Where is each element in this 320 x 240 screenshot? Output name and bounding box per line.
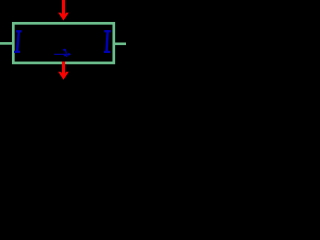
wire loop (green rectangle) [13,23,114,63]
wire right stub [114,42,126,45]
velocity vector v (center, navy right arrow with glyphs) [54,50,69,56]
bottom current arrow (red, downward) [58,62,69,80]
current label I (right, navy italic serif) [104,31,111,52]
top current arrow (red, downward) [58,0,69,21]
current label I (left, navy italic serif) [14,31,22,52]
wire left stub [0,42,13,45]
